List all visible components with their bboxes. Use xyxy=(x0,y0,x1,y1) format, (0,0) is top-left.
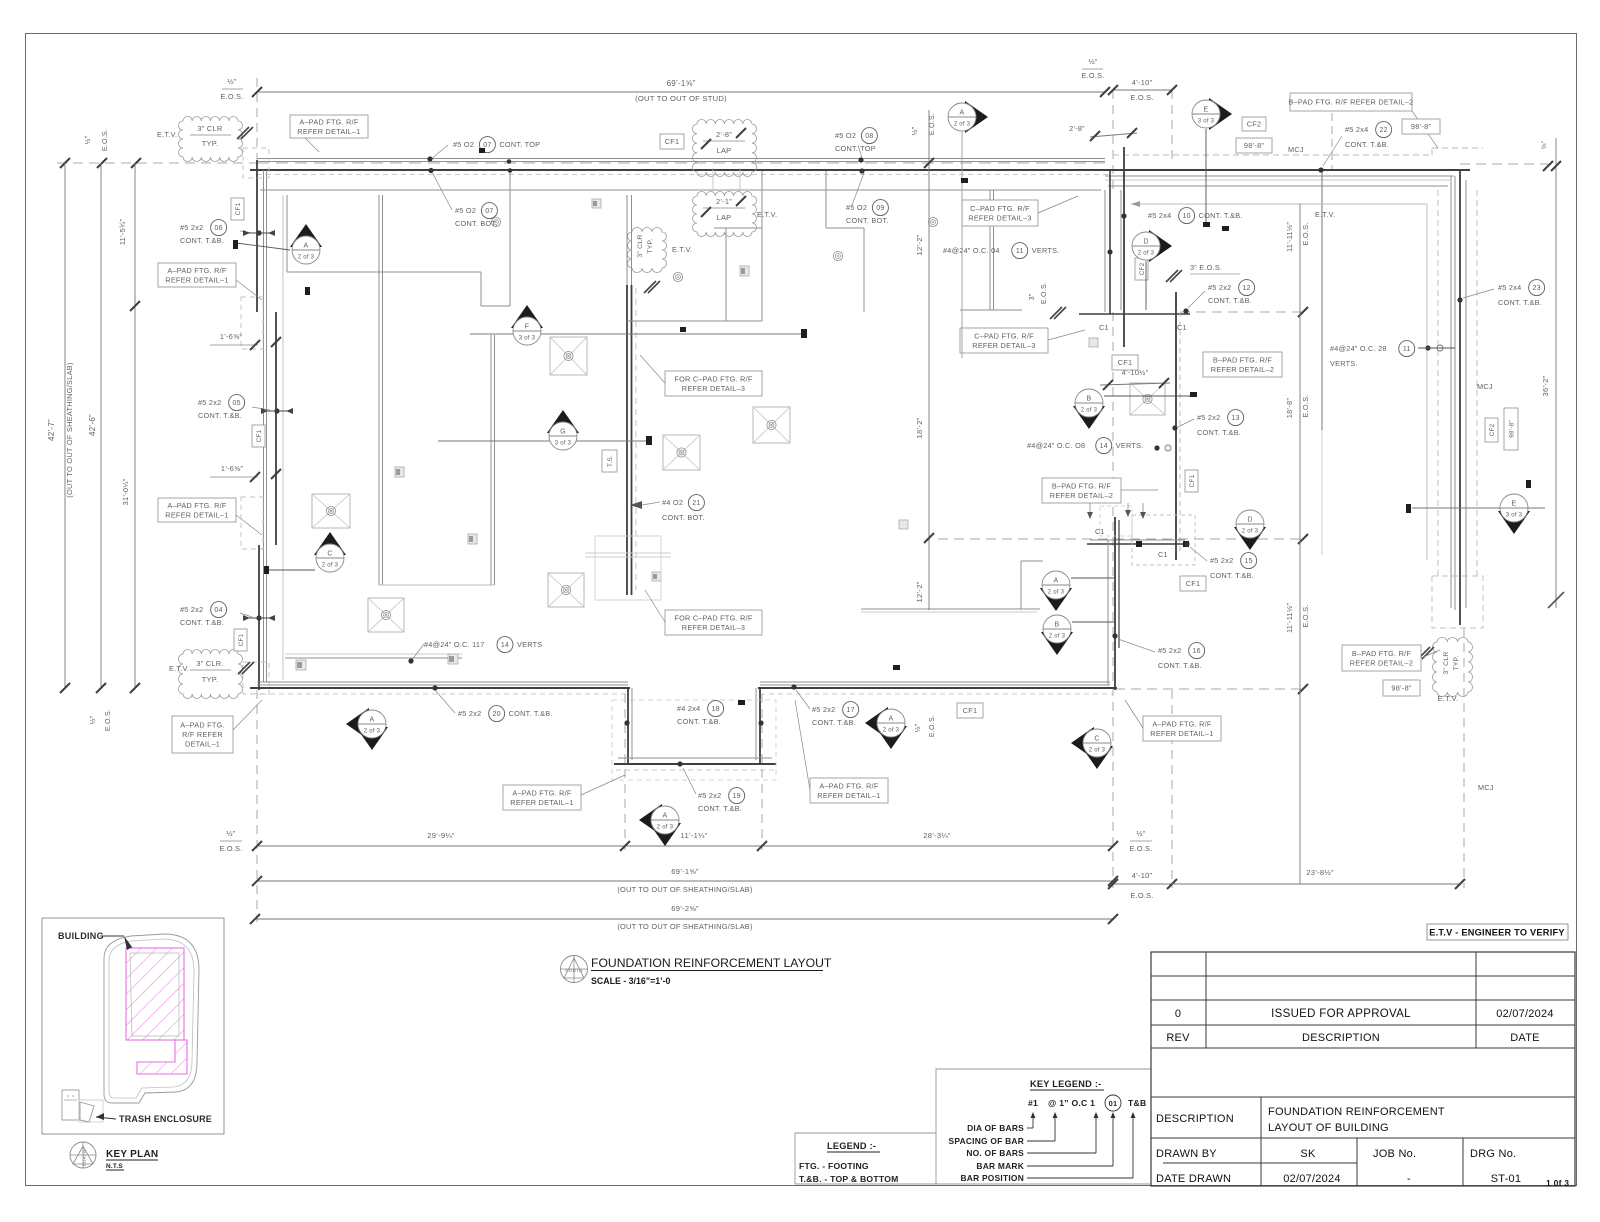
svg-text:C1: C1 xyxy=(1099,323,1109,332)
svg-text:E.T.V.: E.T.V. xyxy=(169,664,189,673)
svg-text:2’-1”: 2’-1” xyxy=(716,197,732,206)
svg-text:CF2: CF2 xyxy=(1139,262,1146,275)
svg-text:MCJ: MCJ xyxy=(1288,145,1304,154)
svg-text:E.O.S.: E.O.S. xyxy=(105,709,112,731)
svg-text:11: 11 xyxy=(1016,248,1024,255)
cloud LAP 2-8 top center xyxy=(692,119,756,176)
central bearing wall (T.S.) xyxy=(626,285,628,595)
svg-text:22: 22 xyxy=(1379,127,1387,134)
label A-PAD bottom right bump xyxy=(810,778,888,803)
svg-text:#5 O2: #5 O2 xyxy=(846,203,867,212)
svg-text:FTG. - FOOTING: FTG. - FOOTING xyxy=(799,1161,869,1171)
svg-text:29’-9¼”: 29’-9¼” xyxy=(427,831,455,840)
trash enclosure symbol xyxy=(62,1090,79,1120)
label C-PAD right top xyxy=(962,200,1038,226)
CF1 box east2 xyxy=(1112,355,1138,370)
svg-text:CONT. BOT.: CONT. BOT. xyxy=(662,513,705,522)
cloud 3CLR vertical center xyxy=(628,228,667,273)
svg-text:11’-11½”: 11’-11½” xyxy=(1285,603,1294,633)
svg-text:#5 2x2: #5 2x2 xyxy=(812,705,835,714)
svg-text:02/07/2024: 02/07/2024 xyxy=(1496,1008,1554,1020)
opening symbol 8 xyxy=(899,520,908,529)
svg-text:3 of 3: 3 of 3 xyxy=(1198,119,1215,125)
svg-text:C–PAD FTG. R/F: C–PAD FTG. R/F xyxy=(970,204,1030,213)
svg-text:½”: ½” xyxy=(84,135,92,144)
svg-text:E.O.S.: E.O.S. xyxy=(221,92,244,101)
svg-text:42’-6”: 42’-6” xyxy=(88,414,97,436)
svg-text:3 of 3: 3 of 3 xyxy=(519,336,536,342)
svg-text:ISSUED FOR APPROVAL: ISSUED FOR APPROVAL xyxy=(1271,1008,1411,1020)
CF1 box east xyxy=(1180,576,1206,591)
svg-text:SPACING OF BAR: SPACING OF BAR xyxy=(949,1136,1024,1146)
marker C 2of3 left xyxy=(314,532,346,555)
cloud 3in CLR bottom left xyxy=(179,650,243,699)
svg-text:20: 20 xyxy=(492,711,500,718)
svg-text:(OUT TO OUT OF SHEATHING/S: (OUT TO OUT OF SHEATHING/SLAB) xyxy=(617,885,752,894)
svg-text:ST-01: ST-01 xyxy=(1491,1173,1522,1185)
interior long wall x=379 xyxy=(378,195,380,585)
svg-text:3 of 3: 3 of 3 xyxy=(555,441,572,447)
svg-text:23’-8½”: 23’-8½” xyxy=(1306,868,1334,877)
svg-text:CONT. T.&B.: CONT. T.&B. xyxy=(180,618,224,627)
svg-text:E.O.S.: E.O.S. xyxy=(1041,282,1048,304)
svg-text:07: 07 xyxy=(483,142,491,149)
svg-text:#5 2x4: #5 2x4 xyxy=(1345,125,1368,134)
svg-text:NO. OF BARS: NO. OF BARS xyxy=(966,1148,1024,1158)
svg-text:13: 13 xyxy=(1231,415,1239,422)
svg-text:CF1: CF1 xyxy=(1118,358,1133,367)
svg-text:VERTS: VERTS xyxy=(517,640,542,649)
svg-text:TYP.: TYP. xyxy=(202,139,218,148)
svg-text:#5 O2: #5 O2 xyxy=(455,206,476,215)
svg-text:C: C xyxy=(1094,736,1099,743)
bullseye symbol 1 xyxy=(491,217,500,226)
svg-text:A–PAD FTG.: A–PAD FTG. xyxy=(180,721,225,730)
svg-text:#5 2x2: #5 2x2 xyxy=(180,223,203,232)
svg-text:REFER DETAIL–3: REFER DETAIL–3 xyxy=(682,623,745,632)
svg-text:REFER DETAIL–1: REFER DETAIL–1 xyxy=(510,798,573,807)
svg-text:CONT. T.&B.: CONT. T.&B. xyxy=(677,717,721,726)
svg-text:0: 0 xyxy=(1175,1008,1181,1020)
svg-text:(OUT TO OUT OF SHEATHING/SLAB): (OUT TO OUT OF SHEATHING/SLAB) xyxy=(65,362,74,497)
98-8 vertical box right wing xyxy=(1485,418,1498,442)
svg-text:REFER DETAIL–1: REFER DETAIL–1 xyxy=(817,791,880,800)
svg-text:MCJ: MCJ xyxy=(1477,382,1493,391)
svg-text:17: 17 xyxy=(846,707,854,714)
svg-text:FOR C–PAD FTG. R/F: FOR C–PAD FTG. R/F xyxy=(674,374,752,383)
svg-text:(OUT TO OUT OF SHEATHING/S: (OUT TO OUT OF SHEATHING/SLAB) xyxy=(617,922,752,931)
svg-text:CF1: CF1 xyxy=(1186,579,1201,588)
east step wall at y=544 xyxy=(1087,543,1187,545)
svg-text:14: 14 xyxy=(501,642,509,649)
marker A 2of3 mid xyxy=(1040,588,1072,611)
inner face of top wall xyxy=(260,189,1101,191)
svg-text:#5 2x2: #5 2x2 xyxy=(1208,283,1231,292)
svg-text:E: E xyxy=(1204,107,1209,114)
bump-out walls xyxy=(627,688,629,764)
svg-text:#5 2x2: #5 2x2 xyxy=(180,605,203,614)
svg-text:DETAIL–1: DETAIL–1 xyxy=(185,740,220,749)
title north symbol xyxy=(561,956,588,983)
svg-text:07: 07 xyxy=(485,208,493,215)
footing dashed top right step xyxy=(1431,148,1433,155)
east step wall at y=314 xyxy=(1079,313,1190,315)
right dim line x=1300 xyxy=(1299,204,1301,884)
wing interior bar line xyxy=(1321,172,1323,430)
opening symbol 7 xyxy=(652,572,661,581)
label B-PAD mid xyxy=(1203,352,1282,377)
opening symbol 1 xyxy=(395,467,404,477)
cloud 3in CLR top left xyxy=(179,117,243,162)
svg-text:2 of 3: 2 of 3 xyxy=(1049,634,1066,640)
dim 4-10 EOS top right xyxy=(1113,89,1172,91)
marker C 2of3 bottom right xyxy=(1071,727,1094,759)
svg-text:TRASH ENCLOSURE: TRASH ENCLOSURE xyxy=(119,1114,212,1124)
svg-text:98’-8”: 98’-8” xyxy=(1391,684,1411,693)
bottom dim row 2 xyxy=(257,880,1113,882)
svg-text:36’-2”: 36’-2” xyxy=(1541,375,1550,396)
right wing east wall xyxy=(1450,176,1452,608)
svg-text:#1: #1 xyxy=(1028,1098,1038,1108)
svg-text:NORTH: NORTH xyxy=(565,968,583,973)
svg-text:REFER DETAIL–1: REFER DETAIL–1 xyxy=(165,275,228,284)
column footing F6 xyxy=(1130,383,1165,415)
east wall upper segment xyxy=(1104,190,1106,312)
svg-text:D: D xyxy=(1247,517,1252,524)
svg-text:REFER DETAIL–2: REFER DETAIL–2 xyxy=(1050,491,1113,500)
svg-text:C1: C1 xyxy=(1177,323,1187,332)
svg-text:E.O.S.: E.O.S. xyxy=(1301,394,1310,417)
svg-text:#5 O2: #5 O2 xyxy=(453,140,474,149)
svg-text:C1: C1 xyxy=(1158,550,1168,559)
svg-text:CONT. T.&B.: CONT. T.&B. xyxy=(1498,298,1542,307)
opening symbol 9 xyxy=(1089,338,1098,347)
svg-text:A: A xyxy=(960,110,965,117)
svg-text:CF1: CF1 xyxy=(256,429,263,442)
column footing F2 xyxy=(368,598,404,632)
svg-text:2 of 3: 2 of 3 xyxy=(954,122,971,128)
column footing F3 xyxy=(548,573,584,607)
svg-text:3” CLR.: 3” CLR. xyxy=(196,659,223,668)
bottom wall right run xyxy=(760,681,1110,683)
bump footing dashed xyxy=(612,700,776,780)
svg-text:DATE DRAWN: DATE DRAWN xyxy=(1156,1173,1231,1185)
svg-text:04: 04 xyxy=(214,607,222,614)
vertical grid dashed right block xyxy=(1112,90,1114,190)
svg-text:69’-1⅝”: 69’-1⅝” xyxy=(667,79,696,88)
svg-text:CF1: CF1 xyxy=(1189,474,1196,487)
svg-text:42’-7”: 42’-7” xyxy=(47,419,56,441)
svg-text:10: 10 xyxy=(1182,213,1190,220)
svg-text:11’-5¾”: 11’-5¾” xyxy=(118,219,127,246)
top wall (out to out of stud) xyxy=(257,158,1105,160)
left wall xyxy=(256,160,258,312)
left wall footing dashed pads xyxy=(241,297,263,349)
svg-text:CONT. T.&B.: CONT. T.&B. xyxy=(812,718,856,727)
svg-text:REFER DETAIL–3: REFER DETAIL–3 xyxy=(968,213,1031,222)
east wall middle segment x=1176 xyxy=(1175,292,1177,560)
svg-text:01: 01 xyxy=(1109,1099,1118,1108)
interior L partition lower right xyxy=(861,608,1040,610)
svg-text:98’-8”: 98’-8” xyxy=(1411,122,1431,131)
svg-text:12: 12 xyxy=(1242,285,1250,292)
svg-text:½”: ½” xyxy=(227,77,236,86)
key plan north symbol xyxy=(70,1142,96,1168)
svg-text:69’-1⅝”: 69’-1⅝” xyxy=(671,867,699,876)
label B-PAD right wing xyxy=(1342,645,1421,671)
marker A 2of3 top left xyxy=(290,224,322,247)
svg-text:R/F REFER: R/F REFER xyxy=(182,730,223,739)
marker A 2of3 top xyxy=(965,101,988,133)
svg-text:B–PAD FTG. R/F: B–PAD FTG. R/F xyxy=(1052,481,1112,490)
svg-text:06: 06 xyxy=(214,225,222,232)
marker F 3of3 xyxy=(470,333,805,335)
svg-text:LAP: LAP xyxy=(717,146,732,155)
svg-text:#5 2x2: #5 2x2 xyxy=(198,398,221,407)
svg-text:CONT. T.&B.: CONT. T.&B. xyxy=(1197,428,1241,437)
svg-text:CF2: CF2 xyxy=(1489,423,1496,436)
bottom dim row 1 xyxy=(257,845,1113,847)
CF1 vertical left 2 xyxy=(252,425,265,447)
svg-text:09: 09 xyxy=(876,205,884,212)
svg-text:VERTS.: VERTS. xyxy=(1330,359,1358,368)
svg-text:E.O.S.: E.O.S. xyxy=(102,129,109,151)
svg-text:A: A xyxy=(1054,578,1059,585)
svg-text:#4@24” O.C. 117: #4@24” O.C. 117 xyxy=(424,640,485,649)
svg-text:A–PAD FTG. R/F: A–PAD FTG. R/F xyxy=(167,501,227,510)
svg-text:69’-2⅝”: 69’-2⅝” xyxy=(671,904,699,913)
key plan building outline xyxy=(104,934,199,1103)
svg-text:11: 11 xyxy=(1403,346,1411,353)
svg-text:KEY LEGEND :-: KEY LEGEND :- xyxy=(1030,1079,1101,1089)
svg-text:18’-8”: 18’-8” xyxy=(1285,398,1294,419)
svg-text:#5 2x2: #5 2x2 xyxy=(458,709,481,718)
svg-text:E.T.V.: E.T.V. xyxy=(757,210,777,219)
svg-text:E.T.V.: E.T.V. xyxy=(1315,210,1335,219)
svg-text:DRAWN BY: DRAWN BY xyxy=(1156,1148,1217,1160)
key legend box xyxy=(936,1069,1151,1184)
svg-text:JOB No.: JOB No. xyxy=(1373,1148,1416,1160)
svg-text:#4 2x4: #4 2x4 xyxy=(677,704,700,713)
key plan frame xyxy=(42,918,224,1134)
svg-text:CONT. T.&B.: CONT. T.&B. xyxy=(1345,140,1389,149)
svg-text:02/07/2024: 02/07/2024 xyxy=(1283,1173,1341,1185)
svg-text:3”: 3” xyxy=(1029,293,1036,300)
E.O.S. grid dashed line top xyxy=(57,162,257,164)
svg-text:2’-8”: 2’-8” xyxy=(1069,124,1085,133)
svg-text:REFER DETAIL–2: REFER DETAIL–2 xyxy=(1211,365,1274,374)
CF2 vertical mid xyxy=(1135,258,1148,280)
svg-text:REFER DETAIL–1: REFER DETAIL–1 xyxy=(1150,729,1213,738)
bottom dim row 3 xyxy=(255,918,1113,920)
svg-text:05: 05 xyxy=(232,400,240,407)
arrow marks on walls xyxy=(247,232,271,234)
column footing F5 xyxy=(753,407,790,443)
C-pad footing outline center xyxy=(595,536,661,600)
svg-text:½”: ½” xyxy=(914,723,922,732)
svg-text:2 of 3: 2 of 3 xyxy=(1089,748,1106,754)
svg-text:TYP.: TYP. xyxy=(1453,655,1460,670)
svg-text:3” CLR: 3” CLR xyxy=(637,234,644,257)
svg-text:11’-1¼”: 11’-1¼” xyxy=(681,831,708,840)
svg-text:(OUT TO OUT OF STUD): (OUT TO OUT OF STUD) xyxy=(635,94,727,103)
svg-text:E.T.V.: E.T.V. xyxy=(157,130,177,139)
column footing F1 xyxy=(312,494,350,528)
left dim lines xyxy=(64,163,66,688)
right dim line x=1556 36ft xyxy=(1555,138,1557,608)
svg-text:CONT. BOT.: CONT. BOT. xyxy=(455,219,498,228)
svg-text:#4@24” O.C. 28: #4@24” O.C. 28 xyxy=(1330,344,1387,353)
marker B 2of3 mid2 xyxy=(1041,632,1073,655)
wing interior guide line xyxy=(1131,203,1427,205)
bottom dim 4-10 right xyxy=(1113,883,1172,885)
svg-text:REFER DETAIL–2: REFER DETAIL–2 xyxy=(1350,658,1413,667)
title block table xyxy=(1151,952,1575,1186)
C1 pad outline dashed xyxy=(1132,515,1195,565)
horizontal dashed EOS bottom right xyxy=(1115,688,1305,690)
svg-text:NORTH: NORTH xyxy=(82,1150,87,1167)
svg-text:CF1: CF1 xyxy=(963,706,978,715)
svg-text:CF1: CF1 xyxy=(665,137,680,146)
label A-PAD bottom left xyxy=(172,716,233,753)
interior partition near bottom xyxy=(285,657,462,659)
svg-text:B–PAD FTG. R/F: B–PAD FTG. R/F xyxy=(1352,649,1412,658)
bottom wall left run xyxy=(257,681,628,683)
marker G 3of3 xyxy=(438,440,650,442)
label B-PAD top right xyxy=(1290,93,1412,111)
label 98-8 right wing xyxy=(1383,680,1420,696)
svg-text:T.&B. - TOP & BOTTOM: T.&B. - TOP & BOTTOM xyxy=(799,1174,899,1184)
marker B 2of3 right xyxy=(1073,406,1105,429)
svg-text:KEY PLAN: KEY PLAN xyxy=(106,1149,158,1160)
svg-text:CF2: CF2 xyxy=(1247,120,1262,129)
svg-text:E.O.S.: E.O.S. xyxy=(220,844,243,853)
svg-text:4’-10”: 4’-10” xyxy=(1132,871,1153,880)
opening symbol 2 xyxy=(468,534,477,544)
svg-text:BAR POSITION: BAR POSITION xyxy=(961,1173,1025,1183)
marker D 2of3 right xyxy=(1149,230,1172,262)
svg-text:REFER DETAIL–3: REFER DETAIL–3 xyxy=(682,384,745,393)
reinforcement bar line east upper xyxy=(1123,147,1125,347)
svg-text:F: F xyxy=(525,324,530,331)
vertical dashed MCJ top xyxy=(1331,100,1333,170)
svg-text:23: 23 xyxy=(1532,285,1540,292)
right dim line x=929 xyxy=(928,110,930,610)
svg-text:2 of 3: 2 of 3 xyxy=(298,255,315,261)
svg-text:12’-2”: 12’-2” xyxy=(915,581,924,602)
svg-text:@ 1” O.C 1: @ 1” O.C 1 xyxy=(1048,1098,1095,1108)
svg-text:A–PAD FTG. R/F: A–PAD FTG. R/F xyxy=(819,781,879,790)
svg-text:D: D xyxy=(1143,239,1148,246)
svg-text:98’-8”: 98’-8” xyxy=(1244,141,1264,150)
label 98-8 top right 2 xyxy=(1236,138,1272,153)
interior partition right rooms xyxy=(825,171,827,228)
svg-text:A–PAD FTG. R/F: A–PAD FTG. R/F xyxy=(512,788,572,797)
svg-text:A–PAD FTG. R/F: A–PAD FTG. R/F xyxy=(299,117,359,126)
svg-text:DESCRIPTION: DESCRIPTION xyxy=(1302,1032,1380,1044)
svg-text:18’-2”: 18’-2” xyxy=(915,417,924,438)
svg-text:CONT. T.&B.: CONT. T.&B. xyxy=(198,411,242,420)
svg-text:12’-2”: 12’-2” xyxy=(915,234,924,255)
svg-text:C–PAD FTG. R/F: C–PAD FTG. R/F xyxy=(974,331,1034,340)
top wall right segment inner lines xyxy=(1105,175,1454,177)
svg-text:A: A xyxy=(889,716,894,723)
svg-text:CONT. T.&B.: CONT. T.&B. xyxy=(1199,211,1243,220)
column footing F4 xyxy=(663,435,700,470)
svg-text:#5 2x2: #5 2x2 xyxy=(698,791,721,800)
svg-text:-: - xyxy=(1407,1173,1411,1185)
opening symbol 4 xyxy=(740,266,749,276)
opening symbol 5 xyxy=(296,660,306,670)
svg-text:½”: ½” xyxy=(1088,57,1097,66)
svg-text:#5 2x2: #5 2x2 xyxy=(1158,646,1181,655)
east wall lower segment x=1115 xyxy=(1114,517,1116,690)
svg-text:CF1: CF1 xyxy=(238,633,245,646)
label 98-8 top right 1 xyxy=(1402,119,1440,134)
svg-text:A: A xyxy=(304,243,309,250)
svg-text:SK: SK xyxy=(1300,1148,1316,1160)
svg-text:B–PAD FTG. R/F REFER DETAIL–2: B–PAD FTG. R/F REFER DETAIL–2 xyxy=(1289,98,1414,107)
svg-text:2 of 3: 2 of 3 xyxy=(1081,408,1098,414)
column footing F7 xyxy=(550,337,587,375)
CF1 vertical left 1 xyxy=(231,198,244,220)
svg-text:2 of 3: 2 of 3 xyxy=(364,729,381,735)
interior partition top-left room xyxy=(286,195,288,272)
svg-text:3” E.O.S.: 3” E.O.S. xyxy=(1190,263,1222,272)
marker E 3of3 top xyxy=(1209,98,1232,130)
svg-text:2 of 3: 2 of 3 xyxy=(322,563,339,569)
svg-text:2 of 3: 2 of 3 xyxy=(1138,251,1155,257)
label A-PAD left 1 xyxy=(158,263,236,287)
svg-text:21: 21 xyxy=(692,500,700,507)
svg-text:MCJ: MCJ xyxy=(1478,783,1494,792)
svg-text:CONT. BOT.: CONT. BOT. xyxy=(846,216,889,225)
label CF2 top right xyxy=(1242,117,1266,131)
marker A 2of3 bottom mid xyxy=(865,707,888,739)
svg-text:1 0f 3: 1 0f 3 xyxy=(1546,1178,1569,1188)
svg-text:CONT. TOP: CONT. TOP xyxy=(835,144,876,153)
horizontal dashed EOS mid right xyxy=(1180,311,1305,313)
right wing footing dashed outline xyxy=(1437,190,1439,576)
ETV engineer to verify box xyxy=(1427,924,1568,940)
svg-text:E.O.S.: E.O.S. xyxy=(1082,71,1105,80)
interior partition right of center xyxy=(761,171,763,321)
svg-text:A–PAD FTG. R/F: A–PAD FTG. R/F xyxy=(1152,719,1212,728)
svg-text:CF1: CF1 xyxy=(235,202,242,215)
svg-text:LAP: LAP xyxy=(717,213,732,222)
svg-text:#4 O2: #4 O2 xyxy=(662,498,683,507)
svg-text:B–PAD FTG. R/F: B–PAD FTG. R/F xyxy=(1213,355,1273,364)
svg-text:VERTS.: VERTS. xyxy=(1116,441,1144,450)
svg-text:E.T.V.: E.T.V. xyxy=(1437,694,1458,703)
CF1 vertical left 3 xyxy=(234,629,247,651)
svg-text:19: 19 xyxy=(732,793,740,800)
svg-text:2’-8”: 2’-8” xyxy=(716,130,732,139)
svg-text:A: A xyxy=(370,717,375,724)
label A-PAD top left xyxy=(290,115,368,138)
svg-text:FOUNDATION REINFORCEMENT: FOUNDATION REINFORCEMENT xyxy=(1268,1106,1445,1118)
svg-text:31’-0¼”: 31’-0¼” xyxy=(121,478,130,505)
svg-text:VERTS.: VERTS. xyxy=(1032,246,1060,255)
svg-text:E.O.S.: E.O.S. xyxy=(1301,222,1310,245)
svg-text:E.O.S.: E.O.S. xyxy=(929,715,936,737)
marker D 2of3 mid xyxy=(1234,527,1266,550)
T.S. label box xyxy=(602,450,617,472)
svg-text:CONT. T.&B.: CONT. T.&B. xyxy=(698,804,742,813)
svg-text:08: 08 xyxy=(865,133,873,140)
svg-text:DATE: DATE xyxy=(1510,1032,1540,1044)
vertical grid dashed bottom bump xyxy=(624,694,626,850)
